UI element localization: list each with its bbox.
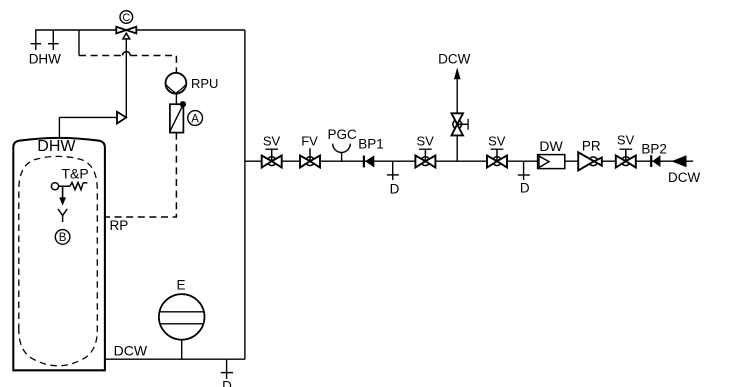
svg-text:SV: SV <box>263 134 281 149</box>
label SV (2) <box>417 134 435 149</box>
svg-text:T&P: T&P <box>62 166 89 182</box>
label DCW (tank inlet) <box>114 342 148 358</box>
svg-text:B: B <box>59 232 67 244</box>
check valve BP2 <box>651 155 660 167</box>
drain D2 <box>518 161 530 180</box>
svg-text:D: D <box>390 181 400 196</box>
stop valve SV2 <box>415 149 435 167</box>
svg-text:SV: SV <box>617 133 635 148</box>
label DCW (right) <box>668 170 700 185</box>
flow arrow up DCW (top) <box>454 67 461 79</box>
tundish Y <box>58 209 67 222</box>
label FV <box>301 134 318 149</box>
svg-text:DHW: DHW <box>29 52 61 67</box>
node C (circled C) <box>120 11 133 24</box>
label BP2 <box>641 141 667 156</box>
valve FV <box>300 148 320 167</box>
DHW outlet stub 2 <box>48 30 59 50</box>
svg-text:D: D <box>222 378 232 387</box>
T&P relief valve <box>51 183 87 190</box>
stop valve SV3 <box>487 149 507 167</box>
label SV (3) <box>488 134 506 149</box>
wire: tank outlet pipe <box>59 117 117 137</box>
label RPU <box>191 76 218 91</box>
svg-text:PGC: PGC <box>327 127 357 142</box>
discharge arrow <box>59 186 66 205</box>
label T&P <box>62 166 89 182</box>
wire: pump to sensor A <box>175 94 177 105</box>
svg-text:BP1: BP1 <box>358 137 384 152</box>
label RP <box>110 218 129 233</box>
label DCW (top) <box>438 51 470 66</box>
pump RPU <box>166 73 187 94</box>
node B (circled B) <box>55 230 70 245</box>
wire: tank DCW inlet bottom line <box>105 358 245 360</box>
wire: DHW header top line <box>35 29 245 31</box>
expansion vessel E <box>159 294 205 359</box>
pressure reducing valve PR <box>578 152 602 170</box>
label DW <box>539 138 563 154</box>
tank inner lining (dashed) <box>19 156 98 365</box>
label D (bottom) <box>222 378 232 387</box>
label D (2) <box>520 180 530 195</box>
wire: main DCW pipe <box>245 160 693 162</box>
svg-text:FV: FV <box>301 134 318 149</box>
svg-text:E: E <box>176 278 185 293</box>
label DHW (tank) <box>37 138 76 155</box>
label PGC <box>327 127 357 142</box>
valve on DCW branch (vertical) <box>452 113 469 135</box>
drain D1 <box>387 161 399 180</box>
flow arrow DCW (right) <box>671 155 686 167</box>
stop valve SV4 <box>616 149 636 167</box>
pressure gauge PGC <box>333 144 351 162</box>
svg-text:RP: RP <box>110 218 129 233</box>
filter DW <box>538 155 565 169</box>
tank DHW outer shell <box>13 138 105 370</box>
check valve (tank outlet, open triangle) <box>117 112 126 124</box>
DHW outlet stub 1 <box>31 30 41 50</box>
label BP1 <box>358 137 384 152</box>
wire: control stub down from header <box>78 30 80 56</box>
node A (circled A) <box>188 111 203 126</box>
svg-text:D: D <box>520 180 530 195</box>
label DHW (top left) <box>29 52 61 67</box>
svg-text:BP2: BP2 <box>641 141 667 156</box>
wire: valve C down pipe <box>125 39 127 118</box>
svg-text:A: A <box>191 113 199 125</box>
label D (1) <box>390 181 400 196</box>
control line dashed from A to tank (RP) <box>106 133 177 217</box>
svg-text:SV: SV <box>488 134 506 149</box>
label SV (4) <box>617 133 635 148</box>
label E <box>176 278 185 293</box>
drain D (bottom) <box>221 359 233 379</box>
svg-text:DCW: DCW <box>668 170 700 185</box>
wire: DCW riser <box>244 30 246 359</box>
svg-text:DW: DW <box>539 138 563 154</box>
svg-text:PR: PR <box>582 138 601 153</box>
label SV (1) <box>263 134 281 149</box>
check valve BP1 <box>364 155 374 167</box>
svg-text:SV: SV <box>417 134 435 149</box>
control line dashed to pump <box>79 52 176 73</box>
svg-text:RPU: RPU <box>191 76 218 91</box>
wire: DCW branch up <box>456 79 458 161</box>
svg-text:DCW: DCW <box>114 342 148 358</box>
stop valve SV1 <box>262 149 282 167</box>
label PR <box>582 138 601 153</box>
svg-text:C: C <box>122 12 130 24</box>
sensor A (rect with diagonal and dot) <box>170 101 186 132</box>
svg-text:DCW: DCW <box>438 51 470 66</box>
three-way valve C <box>116 27 136 39</box>
svg-text:DHW: DHW <box>37 138 76 155</box>
